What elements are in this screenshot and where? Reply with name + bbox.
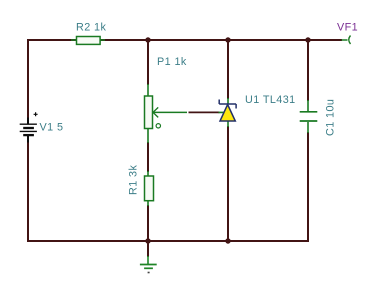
node junction bottom ground	[145, 238, 150, 243]
wire TL431 branch upper	[227, 40, 229, 99]
wire bottom rail	[27, 240, 309, 242]
wire pot branch upper	[147, 40, 149, 85]
capacitor C1	[300, 100, 318, 133]
resistor R1	[145, 171, 154, 206]
wire ground stub	[147, 241, 149, 257]
ground	[140, 256, 157, 273]
op-amp U1 TL431	[219, 98, 237, 127]
svg-text:P1 1k: P1 1k	[157, 56, 187, 68]
potentiometer P1	[145, 84, 188, 143]
svg-text:C1 10u: C1 10u	[325, 99, 337, 136]
wire right vertical upper	[307, 40, 309, 101]
resistor R2	[71, 37, 105, 45]
node junction top TL431	[225, 37, 230, 42]
wire left vertical lower	[27, 136, 29, 242]
node junction top R2-P1	[145, 37, 150, 42]
terminal VF1	[342, 36, 351, 45]
svg-text:VF1: VF1	[337, 22, 358, 34]
svg-text:R2 1k: R2 1k	[76, 22, 106, 34]
wire left vertical upper	[27, 39, 29, 124]
wire right vertical lower	[307, 132, 309, 242]
wire R1 to bottom rail	[147, 205, 149, 241]
node junction top C1	[305, 37, 310, 42]
svg-text:U1 TL431: U1 TL431	[245, 94, 296, 106]
battery V1	[20, 112, 38, 142]
svg-text:V1 5: V1 5	[40, 122, 64, 134]
node junction bottom TL431	[225, 238, 230, 243]
wire top rail	[28, 39, 342, 41]
svg-text:R1 3k: R1 3k	[128, 165, 140, 195]
wire TL431 branch lower	[227, 126, 229, 241]
wire ref net horizontal	[189, 111, 220, 113]
wire pot to R1	[147, 142, 149, 172]
